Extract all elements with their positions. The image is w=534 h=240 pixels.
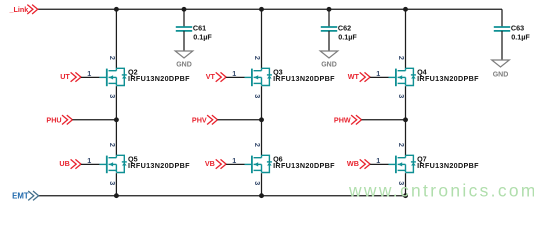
svg-text:PHV: PHV bbox=[192, 115, 207, 124]
wire C63 to ground bbox=[501, 31, 503, 60]
svg-text:C61: C61 bbox=[193, 23, 206, 32]
svg-text:IRFU13N20DPBF: IRFU13N20DPBF bbox=[417, 161, 479, 170]
svg-text:GND: GND bbox=[176, 62, 192, 69]
junction dot PHU bbox=[114, 117, 119, 122]
wire gate Q7 bbox=[370, 163, 388, 165]
wire phase PHU bbox=[72, 119, 116, 121]
svg-text:1: 1 bbox=[376, 156, 380, 165]
svg-text:WB: WB bbox=[347, 159, 359, 168]
svg-text:GND: GND bbox=[493, 71, 509, 78]
svg-text:IRFU13N20DPBF: IRFU13N20DPBF bbox=[417, 74, 479, 83]
svg-text:3: 3 bbox=[253, 94, 262, 98]
ground for C63 bbox=[492, 60, 510, 67]
svg-text:3: 3 bbox=[108, 181, 117, 185]
svg-text:0.1µF: 0.1µF bbox=[338, 33, 357, 42]
svg-text:2: 2 bbox=[253, 143, 262, 147]
wire phase to drain Q5 bbox=[115, 120, 117, 156]
wire C61 to bus bbox=[183, 9, 185, 27]
svg-text:1: 1 bbox=[232, 69, 236, 78]
wire gate Q4 bbox=[370, 76, 388, 78]
svg-text:_Link: _Link bbox=[9, 5, 29, 14]
wire phase to drain Q7 bbox=[405, 120, 407, 156]
wire source Q6 to bottom bus bbox=[261, 173, 263, 196]
wire phase PHW bbox=[362, 119, 406, 121]
transistor Q4 bbox=[389, 68, 416, 86]
svg-text:WT: WT bbox=[348, 72, 360, 81]
svg-text:3: 3 bbox=[253, 181, 262, 185]
svg-text:PHU: PHU bbox=[46, 115, 61, 124]
junction dot Q5 bottom bbox=[114, 193, 119, 198]
transistor Q2 bbox=[99, 68, 126, 86]
wire gate Q6 bbox=[226, 163, 244, 165]
wire source Q2 to phase bbox=[115, 86, 117, 120]
capacitor C62 bbox=[321, 27, 337, 31]
wire source Q7 to bottom bus bbox=[405, 173, 407, 196]
junction dot U top bus bbox=[114, 7, 119, 12]
wire phase PHV bbox=[218, 119, 262, 121]
top DC bus wire bbox=[38, 8, 503, 10]
junction dot PHV bbox=[259, 117, 264, 122]
ground for C62 bbox=[320, 51, 338, 58]
svg-text:3: 3 bbox=[108, 94, 117, 98]
svg-text:IRFU13N20DPBF: IRFU13N20DPBF bbox=[273, 161, 335, 170]
transistor Q6 bbox=[245, 155, 272, 173]
wire drain Q3 bbox=[261, 9, 263, 68]
svg-text:UT: UT bbox=[60, 72, 70, 81]
svg-text:2: 2 bbox=[397, 143, 406, 147]
svg-text:UB: UB bbox=[59, 159, 69, 168]
svg-text:VT: VT bbox=[206, 72, 216, 81]
svg-text:1: 1 bbox=[87, 69, 91, 78]
wire C62 to ground bbox=[328, 31, 330, 51]
svg-text:2: 2 bbox=[397, 56, 406, 60]
svg-text:VB: VB bbox=[205, 159, 215, 168]
svg-text:3: 3 bbox=[397, 94, 406, 98]
junction dot Q6 bottom bbox=[259, 193, 264, 198]
capacitor C63 bbox=[494, 27, 510, 31]
junction dot C62 top bbox=[327, 7, 332, 12]
svg-text:0.1µF: 0.1µF bbox=[193, 33, 212, 42]
wire source Q3 to phase bbox=[261, 86, 263, 120]
svg-text:2: 2 bbox=[108, 56, 117, 60]
wire C63 to bus bbox=[501, 9, 503, 27]
wire C62 to bus bbox=[328, 9, 330, 27]
ground for C61 bbox=[175, 51, 193, 58]
svg-text:1: 1 bbox=[376, 69, 380, 78]
wire drain Q4 bbox=[405, 9, 407, 68]
svg-text:IRFU13N20DPBF: IRFU13N20DPBF bbox=[128, 74, 190, 83]
svg-text:C63: C63 bbox=[511, 23, 524, 32]
transistor Q5 bbox=[99, 155, 126, 173]
wire C61 to ground bbox=[183, 31, 185, 51]
wire gate Q3 bbox=[226, 76, 244, 78]
svg-text:1: 1 bbox=[87, 156, 91, 165]
wire gate Q5 bbox=[81, 163, 99, 165]
junction dot Q7 bottom bbox=[403, 193, 408, 198]
junction dot V top bus bbox=[259, 7, 264, 12]
svg-text:EMT: EMT bbox=[12, 192, 29, 201]
junction dot C61 top bbox=[182, 7, 187, 12]
transistor Q3 bbox=[245, 68, 272, 86]
wire source Q4 to phase bbox=[405, 86, 407, 120]
svg-text:GND: GND bbox=[321, 62, 337, 69]
bottom EMT bus wire bbox=[39, 195, 406, 197]
svg-text:C62: C62 bbox=[338, 23, 351, 32]
svg-text:2: 2 bbox=[108, 143, 117, 147]
wire drain Q2 bbox=[115, 9, 117, 68]
svg-text:www.cntronics.com: www.cntronics.com bbox=[348, 181, 534, 201]
wire phase to drain Q6 bbox=[261, 120, 263, 156]
svg-text:2: 2 bbox=[253, 56, 262, 60]
svg-text:IRFU13N20DPBF: IRFU13N20DPBF bbox=[273, 74, 335, 83]
junction dot W top bus bbox=[403, 7, 408, 12]
capacitor C61 bbox=[176, 27, 192, 31]
svg-text:PHW: PHW bbox=[334, 115, 351, 124]
svg-text:0.1µF: 0.1µF bbox=[511, 33, 530, 42]
svg-text:1: 1 bbox=[232, 156, 236, 165]
junction dot PHW bbox=[403, 117, 408, 122]
wire gate Q2 bbox=[81, 76, 99, 78]
svg-text:IRFU13N20DPBF: IRFU13N20DPBF bbox=[128, 161, 190, 170]
transistor Q7 bbox=[389, 155, 416, 173]
wire source Q5 to bottom bus bbox=[115, 173, 117, 196]
